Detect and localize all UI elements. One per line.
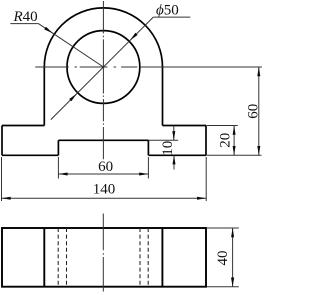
top arrowhead of 20 dimension xyxy=(233,126,236,135)
phi50 dimension diagonal line xyxy=(51,17,154,120)
phi50 leader tail xyxy=(153,16,190,18)
left arrowhead of 140 dimension xyxy=(2,197,11,200)
top arrowhead of 40 dimension xyxy=(231,228,234,237)
R40 leader tail xyxy=(10,23,38,25)
right arrowhead of 60 dimension xyxy=(139,173,148,176)
vertical centerline bottom view (dash-dot segments) xyxy=(102,214,104,292)
bottom view upright right projection line xyxy=(161,228,163,287)
base bottom left segment xyxy=(2,154,58,156)
bottom arrowhead of 20 dimension xyxy=(233,146,236,155)
60 height dimension line xyxy=(258,67,260,155)
base bottom right segment xyxy=(148,154,206,156)
upper arrowhead of 10 dimension xyxy=(172,131,175,140)
slot left side xyxy=(57,140,59,155)
right arrowhead of 140 dimension xyxy=(197,197,206,200)
arrowhead of R40 leader xyxy=(44,27,53,33)
svg-text:60: 60 xyxy=(245,104,261,119)
hidden hole left edge (dashed) xyxy=(66,228,68,287)
lower arrowhead of 10 dimension xyxy=(173,155,176,164)
140 dimension line xyxy=(2,197,207,199)
60 dimension line xyxy=(58,173,148,175)
40 dimension bottom extension line xyxy=(207,286,239,288)
horizontal centerline front view / 60 dim extension (dash-dot segments) xyxy=(35,66,262,68)
upright left side wire xyxy=(43,67,45,126)
10 dimension upper arrow line xyxy=(173,126,175,140)
outer R40 arc (front view top) xyxy=(44,8,162,67)
shared bottom extension line for 20 and 60 dims xyxy=(207,154,262,156)
hidden slot left edge (dashed) xyxy=(57,228,59,287)
arrowhead of phi50 dimension upper-right xyxy=(130,33,138,41)
bottom view upright left projection line xyxy=(43,228,45,287)
upright right side wire xyxy=(162,67,164,126)
40 dimension line xyxy=(232,228,234,287)
svg-text:10: 10 xyxy=(160,141,176,156)
svg-text:ϕ50: ϕ50 xyxy=(156,2,179,18)
slot right side xyxy=(147,140,149,155)
10 dimension lower arrow line xyxy=(173,155,175,169)
20 dimension line xyxy=(233,126,235,156)
svg-text:60: 60 xyxy=(98,159,113,175)
svg-text:40: 40 xyxy=(215,251,231,266)
140 dimension left extension line xyxy=(1,157,3,201)
base top left edge xyxy=(2,125,44,127)
20 dimension top extension line xyxy=(207,125,238,127)
bottom view outline rectangle xyxy=(2,228,206,287)
svg-text:20: 20 xyxy=(218,133,234,148)
hidden hole right edge (dashed) xyxy=(139,228,141,287)
left arrowhead of 60 dimension xyxy=(58,173,67,176)
top arrowhead of 60 height dimension xyxy=(257,67,260,76)
base top right edge xyxy=(163,125,207,127)
slot top edge xyxy=(58,139,148,141)
60 dimension left extension line xyxy=(57,157,59,179)
140 dimension right extension line xyxy=(205,157,207,201)
hidden slot right edge (dashed) xyxy=(147,228,149,287)
arrowhead of phi50 dimension lower-left xyxy=(69,94,77,102)
60 dimension right extension line xyxy=(147,157,149,179)
vertical centerline front view (dash-dot segments) xyxy=(102,1,104,159)
40 dimension top extension line xyxy=(207,227,239,229)
bottom arrowhead of 40 dimension xyxy=(231,278,234,287)
bottom arrowhead of 60 height dimension xyxy=(257,146,260,155)
phi50 hole circle xyxy=(67,31,140,104)
10 dimension extension line xyxy=(148,139,178,141)
base right edge xyxy=(205,126,207,156)
svg-text:140: 140 xyxy=(93,182,116,198)
svg-text:R40: R40 xyxy=(13,9,38,25)
R40 leader line to center xyxy=(38,24,103,67)
base left edge xyxy=(1,126,3,156)
